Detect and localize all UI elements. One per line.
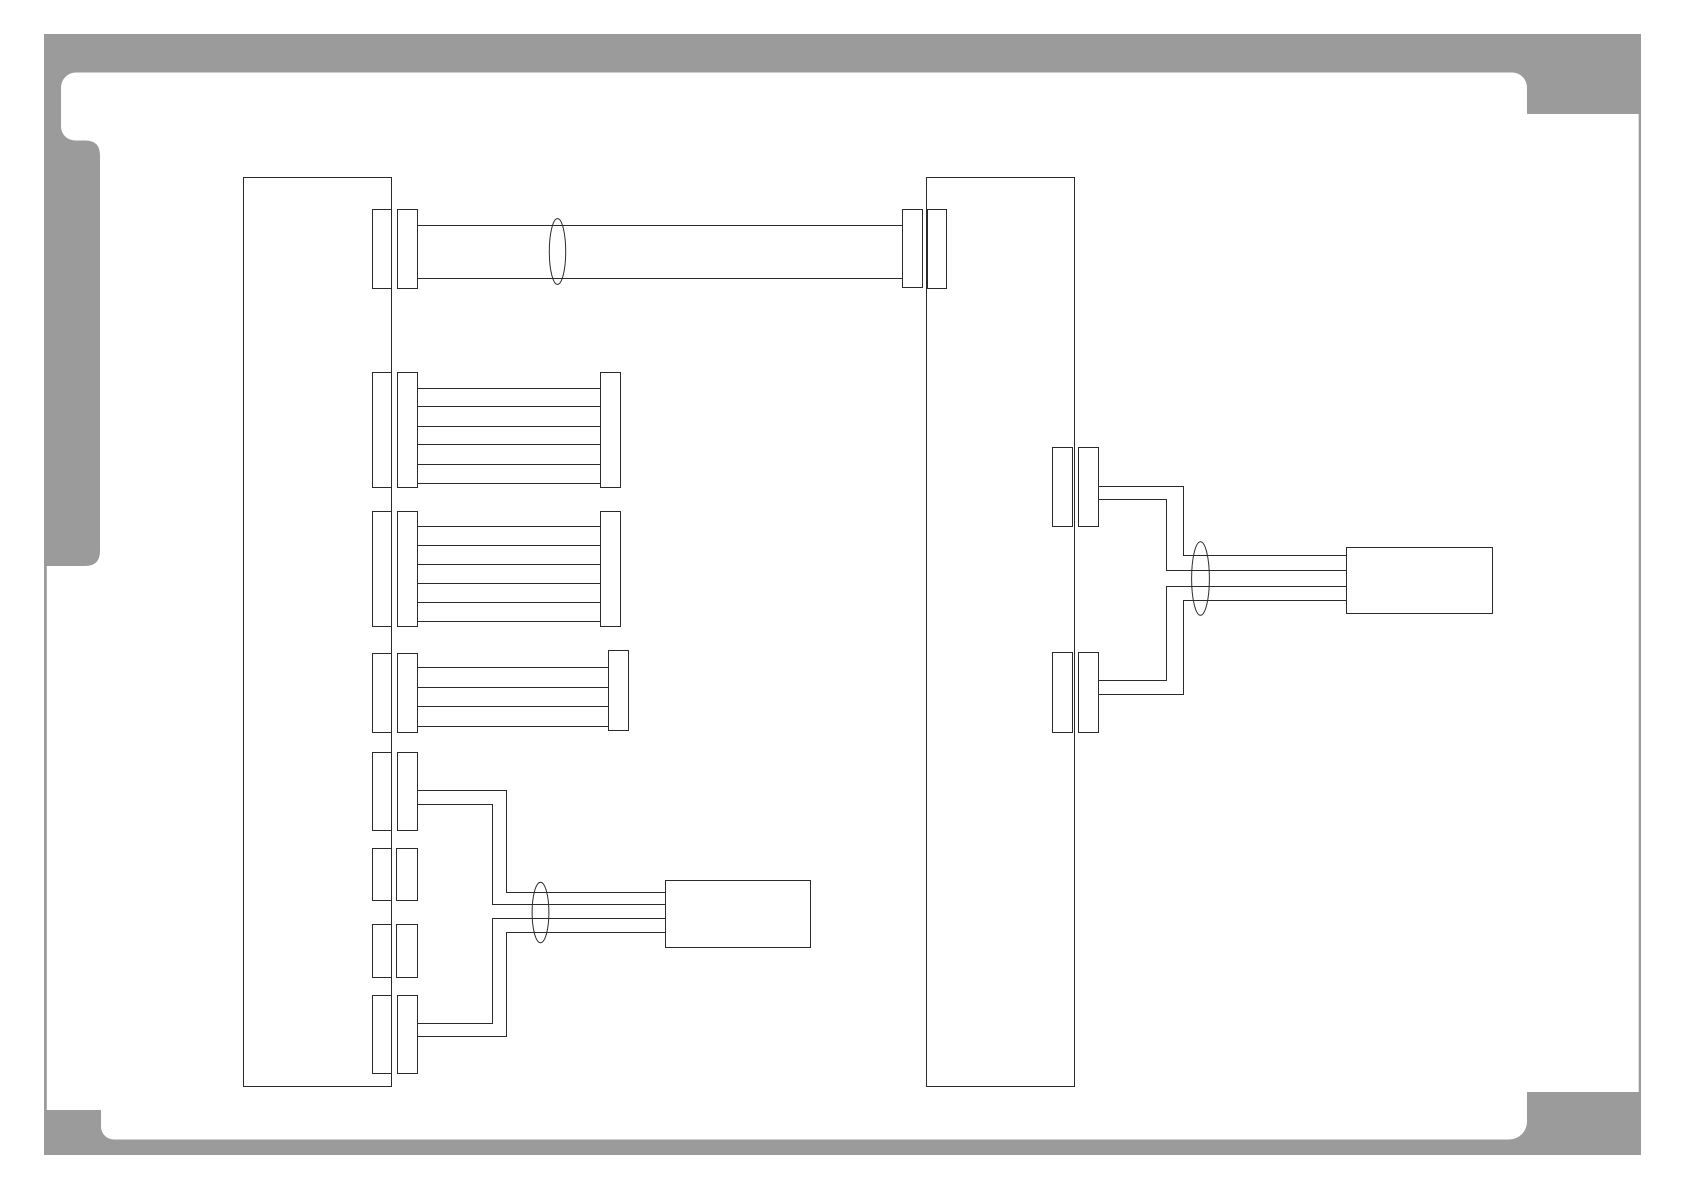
wire (ribbon 3 line 2) xyxy=(418,687,609,689)
ferrite bead F3 (right harness) xyxy=(1192,542,1210,616)
connector CN4 (ribbon 1 far end) xyxy=(601,373,621,488)
wire (ribbon 1 line 5) xyxy=(418,464,601,466)
connector CN13-B (right board, harness upper, outer) xyxy=(1079,448,1099,527)
wire (harness conductor 3 from CN12) xyxy=(418,919,666,1024)
connector CN7-B (left board, ribbon 3, outer) xyxy=(398,654,418,733)
module M1 (left harness load) xyxy=(666,881,811,948)
board P1 (left PCB) xyxy=(244,178,392,1087)
page frame top band xyxy=(44,34,1641,73)
wire (harness conductor 4 from CN12) xyxy=(418,933,666,1037)
wire (ribbon 2 line 4) xyxy=(418,583,601,585)
wire (ribbon 1 line 2) xyxy=(418,406,601,408)
connector CN9-B (left board, harness upper, outer) xyxy=(398,753,418,831)
wire (cable 1 bottom conductor) xyxy=(418,278,903,280)
connector CN1-A (left board, cable 1, inner) xyxy=(373,210,392,289)
wire (ribbon 2 line 5) xyxy=(418,602,601,604)
connector CN2-A (right board, cable 1, outer) xyxy=(903,210,923,288)
wire (harness conductor 2 from CN9) xyxy=(418,805,666,905)
connector CN5-B (left board, ribbon 2, outer) xyxy=(398,512,418,627)
page frame left thin line xyxy=(44,560,47,1115)
connector CN3-B (left board, ribbon 1, outer) xyxy=(398,373,418,488)
wire (ribbon 1 line 1) xyxy=(418,388,601,390)
board P2 (right PCB) xyxy=(927,178,1075,1087)
connector CN12-A (left board, harness lower, inner) xyxy=(373,996,392,1074)
wire (ribbon 2 line 1) xyxy=(418,526,601,528)
module M2 (right harness load) xyxy=(1347,548,1493,614)
connector CN3-A (left board, ribbon 1, inner) xyxy=(373,373,392,488)
connector CN1-B (left board, cable 1, outer) xyxy=(398,210,418,289)
page frame left tab top fillet xyxy=(60,127,75,143)
wire (conductor 4 from CN14) xyxy=(1099,601,1347,695)
page frame bottom-left tab xyxy=(44,1110,101,1155)
wire (ribbon 3 line 4) xyxy=(418,726,609,728)
page frame top-left strip xyxy=(44,34,61,141)
page frame top-left inner fillet xyxy=(60,71,76,88)
page frame bottom-right tab xyxy=(1527,1092,1641,1155)
wire (ribbon 2 line 2) xyxy=(418,545,601,547)
connector CN7-A (left board, ribbon 3, inner) xyxy=(373,654,392,733)
page frame bottom-left tab fillet xyxy=(100,1127,114,1142)
wire (conductor 2 from CN13) xyxy=(1099,500,1347,571)
wire (ribbon 1 line 4) xyxy=(418,444,601,446)
page frame left tab xyxy=(44,141,100,567)
wire (ribbon 1 line 6) xyxy=(418,483,601,485)
wire (ribbon 2 line 6) xyxy=(418,621,601,623)
connector CN10-B (left board, spare 1, outer) xyxy=(397,849,418,901)
wire (ribbon 3 line 1) xyxy=(418,667,609,669)
wire (ribbon 1 line 3) xyxy=(418,426,601,428)
wire (harness conductor 1 from CN9) xyxy=(418,791,666,893)
page frame bottom band xyxy=(44,1140,1641,1156)
page frame top-right inner fillet xyxy=(1512,71,1528,88)
connector CN13-A (right board, harness upper, inner) xyxy=(1053,448,1073,527)
wire (conductor 1 from CN13) xyxy=(1099,487,1347,556)
connector CN2-B (right board, cable 1, inner) xyxy=(928,210,947,289)
page frame right thin line xyxy=(1639,114,1641,1092)
connector CN5-A (left board, ribbon 2, inner) xyxy=(373,512,392,627)
connector CN10-A (left board, spare 1, inner) xyxy=(373,849,392,901)
wire (ribbon 3 line 3) xyxy=(418,706,609,708)
page frame top-right tab xyxy=(1527,71,1641,114)
wire (conductor 3 from CN14) xyxy=(1099,587,1347,681)
connector CN14-A (right board, harness lower, inner) xyxy=(1053,653,1073,733)
connector CN9-A (left board, harness upper, inner) xyxy=(373,753,392,831)
connector CN14-B (right board, harness lower, outer) xyxy=(1079,653,1099,733)
page frame bottom-right tab fillet xyxy=(1509,1122,1528,1142)
connector CN12-B (left board, harness lower, outer) xyxy=(398,996,418,1074)
connector CN11-B (left board, spare 2, outer) xyxy=(397,925,418,978)
connector CN11-A (left board, spare 2, inner) xyxy=(373,925,392,978)
ferrite bead F2 (left harness) xyxy=(532,882,549,943)
wire (ribbon 2 line 3) xyxy=(418,564,601,566)
wire (cable 1 top conductor) xyxy=(418,225,903,227)
connector CN8 (ribbon 3 far end) xyxy=(609,651,629,731)
ferrite bead F1 (cable 1) xyxy=(549,219,565,285)
connector CN6 (ribbon 2 far end) xyxy=(601,512,621,627)
